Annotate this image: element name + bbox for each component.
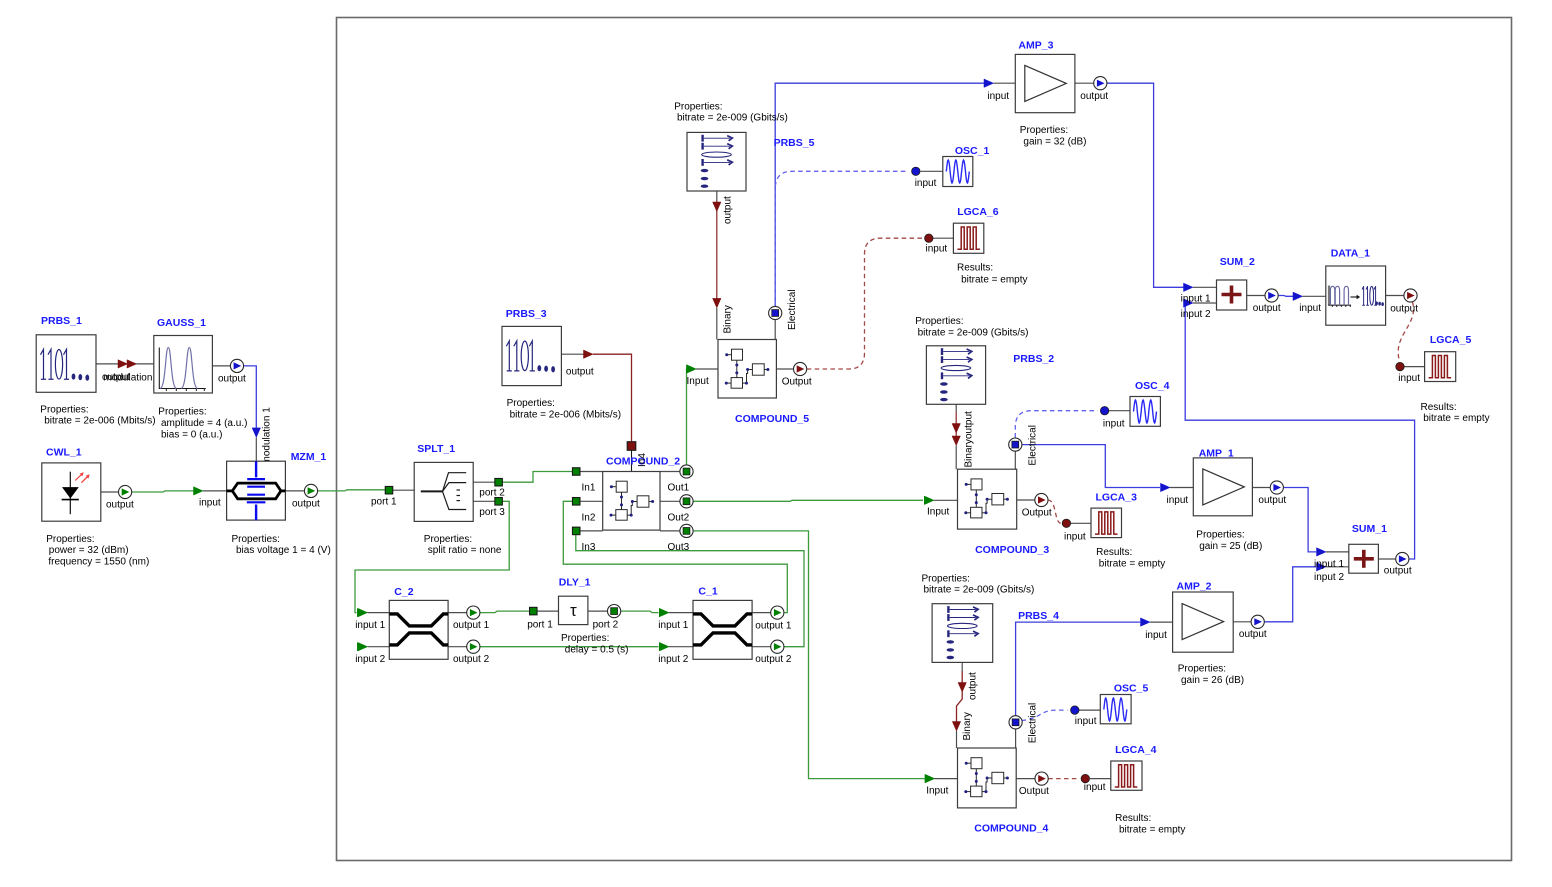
svg-text:input: input [1103,419,1125,430]
wire DLY_1 port 2 to C_1 input 1 [588,610,608,612]
wire GAUSS_1 output to MZM_1 modulation 1 [212,365,230,367]
svg-text:gain = 26 (dB): gain = 26 (dB) [1181,675,1244,686]
svg-text:Results:: Results: [957,263,993,274]
component LGCA_6 (logic analyzer) [925,206,1028,285]
wire AMP_3 output to SUM_2 input 1 [1075,82,1094,84]
component LGCA_4 (logic analyzer) [1081,744,1185,835]
svg-text:In4: In4 [637,453,648,467]
wire dashed COMPOUND_4 Output to LGCA_4 input [1048,778,1079,780]
svg-text:output: output [1080,91,1108,102]
wire dashed COMPOUND_3 Output to LGCA_3 input [1048,500,1061,523]
component GAUSS_1 (gaussian pulse shaper) [154,317,272,464]
svg-text:C_2: C_2 [394,586,413,598]
svg-text:bitrate = 2e-009 (Gbits/s): bitrate = 2e-009 (Gbits/s) [677,113,788,124]
svg-text:input 2: input 2 [355,654,385,665]
svg-text:Input: Input [927,507,949,518]
wire SPLT_1 port 2 to COMPOUND_2 In1 [473,481,495,483]
wire C_2 output 2 to C_1 input 2 [448,646,467,648]
svg-text:output 2: output 2 [453,654,490,665]
svg-text:input: input [1064,531,1086,542]
wire C_1 output 1 to COMPOUND_2 In2 [563,501,787,612]
wire C_1 output 2 to COMPOUND_2 In3 [576,535,804,647]
svg-text:Results:: Results: [1115,813,1151,824]
svg-text:bitrate = empty: bitrate = empty [1099,558,1165,569]
wire COMPOUND_3 Electrical stub [1014,451,1016,469]
component SUM_1 (adder) [1314,523,1412,583]
svg-text:Input: Input [926,786,948,797]
svg-text:In1: In1 [582,483,596,494]
wire SUM_1 output to SUM_2 input 2 [1378,558,1395,560]
wire stub C_2 input 2 (unconnected) [358,643,368,651]
svg-text:output: output [218,374,246,385]
svg-text:output: output [292,499,320,510]
svg-text:output: output [1239,629,1267,640]
svg-text:Electrical: Electrical [1027,425,1038,466]
wire dashed OSC_5 tap [1022,710,1068,720]
svg-text:SUM_2: SUM_2 [1220,256,1255,268]
svg-text:port 1: port 1 [527,619,553,630]
svg-text:LGCA_5: LGCA_5 [1430,334,1472,346]
wire COMPOUND_5 Electrical to AMP_3 input [775,83,986,306]
wire OSC_4 input stub [1109,410,1130,412]
svg-text:Properties:: Properties: [507,398,555,409]
component DATA_1 (data recovery) [1299,248,1418,326]
svg-text:OSC_5: OSC_5 [1114,683,1149,695]
svg-text:LGCA_4: LGCA_4 [1115,744,1157,756]
svg-text:SPLT_1: SPLT_1 [417,443,455,455]
svg-text:split ratio = none: split ratio = none [428,545,502,556]
svg-text:Properties:: Properties: [674,101,722,112]
svg-text:output 2: output 2 [755,654,792,665]
component OSC_1 (oscilloscope) [912,145,990,189]
svg-text:Output: Output [1022,508,1052,519]
svg-text:modulation 1: modulation 1 [261,407,272,465]
wire COMPOUND_2 port stubs [580,471,603,473]
svg-text:bitrate = empty: bitrate = empty [1423,413,1489,424]
svg-text:Output: Output [782,377,812,388]
component DLY_1 (delay) [527,577,628,656]
svg-text:Electrical: Electrical [1028,703,1039,744]
svg-text:input: input [199,498,221,509]
svg-text:output: output [1384,566,1412,577]
wire dashed OSC_4 tap [1015,411,1097,438]
svg-text:Results:: Results: [1421,402,1457,413]
wire LGCA_3 input stub [1071,522,1091,524]
svg-text:port 3: port 3 [479,507,505,518]
svg-text:AMP_2: AMP_2 [1177,581,1212,593]
svg-text:PRBS_3: PRBS_3 [506,308,547,320]
svg-text:GAUSS_1: GAUSS_1 [157,317,206,329]
svg-text:LGCA_3: LGCA_3 [1096,492,1138,504]
wire dashed COMPOUND_5 Output to LGCA_6 input [807,238,923,369]
component LGCA_5 (logic analyzer) [1396,334,1490,424]
wire OSC_5 input stub [1079,709,1100,711]
svg-text:bitrate = empty: bitrate = empty [1119,824,1185,835]
component SUM_2 (adder) [1181,256,1281,320]
wire LGCA_6 input stub [933,237,953,239]
component CWL_1 (CW laser) [42,446,149,567]
svg-text:output: output [1258,495,1286,506]
svg-text:Input: Input [687,376,709,387]
svg-text:output: output [968,672,979,700]
svg-text:Binary: Binary [723,305,734,333]
svg-text:PRBS_4: PRBS_4 [1018,610,1059,622]
wire PRBS_3 output to COMPOUND_2 In4 [561,353,583,355]
svg-text:CWL_1: CWL_1 [46,446,82,458]
svg-text:input: input [1299,303,1321,314]
svg-text:input 1: input 1 [1314,559,1344,570]
svg-text:bias = 0 (a.u.): bias = 0 (a.u.) [161,429,222,440]
svg-text:port 2: port 2 [593,619,619,630]
wire COMPOUND_4 Electrical to AMP_2 input [1016,622,1140,716]
svg-text:Out1: Out1 [668,483,690,494]
wire MZM_1 output to SPLT_1 port 1 [285,490,304,492]
svg-text:bitrate = 2e-009 (Gbits/s): bitrate = 2e-009 (Gbits/s) [918,328,1029,339]
svg-text:DLY_1: DLY_1 [559,577,591,589]
svg-text:In2: In2 [582,512,596,523]
svg-text:MZM_1: MZM_1 [291,451,327,463]
wire OSC_1 input stub [921,170,943,172]
svg-text:output: output [723,196,734,224]
svg-text:Binary: Binary [962,712,973,740]
svg-text:output: output [964,411,975,439]
wire COMPOUND_2 Out2 to COMPOUND_3 Input [693,500,923,501]
svg-text:output: output [566,367,594,378]
wire AMP_2 output to SUM_1 input 2 [1233,621,1251,623]
component LGCA_3 (logic analyzer) [1062,492,1165,570]
svg-text:Properties:: Properties: [561,633,609,644]
svg-text:port 2: port 2 [479,488,505,499]
svg-text:bias voltage 1 = 4 (V): bias voltage 1 = 4 (V) [236,545,331,556]
wire PRBS_5 output to COMPOUND_5 Binary [716,191,718,201]
wire C_2 output 1 to DLY_1 port 1 [448,612,467,614]
svg-text:modulation: modulation [104,373,153,384]
svg-text:input 1: input 1 [355,620,385,631]
svg-text:Output: Output [1019,786,1049,797]
component AMP_3 (amplifier) [987,40,1108,148]
frame border [337,18,1512,861]
svg-text:Out2: Out2 [668,512,690,523]
wire DATA_1 output stub [1386,295,1404,297]
wire dashed OSC_1 tap [775,171,908,305]
wire COMPOUND_4 Electrical stub [1015,729,1017,748]
svg-text:output: output [1253,303,1281,314]
wire SPLT_1 port 3 to C_2 input 1 [473,500,495,502]
component AMP_1 (amplifier) [1167,448,1287,552]
component SPLT_1 (splitter) [371,443,505,556]
component PRBS_3 (PRBS generator) [502,308,621,420]
wire COMPOUND_5 Output stub [776,368,793,370]
svg-text:C_1: C_1 [698,585,717,597]
svg-text:COMPOUND_3: COMPOUND_3 [975,544,1049,556]
svg-text:COMPOUND_5: COMPOUND_5 [735,413,809,425]
svg-text:input 2: input 2 [658,654,688,665]
svg-text:bitrate = empty: bitrate = empty [961,274,1027,285]
component MZM_1 (Mach-Zehnder modulator) [199,451,331,556]
component PRBS_1 (PRBS generator) [36,315,155,427]
svg-text:output: output [1390,304,1418,315]
component AMP_2 (amplifier) [1145,581,1267,686]
wire PRBS_1 output to GAUSS_1 modulation [96,363,119,365]
wire C_1 output stubs [752,612,771,614]
svg-text:input: input [926,244,948,255]
svg-text:input 1: input 1 [1181,294,1211,305]
svg-text:bitrate = 2e-006 (Mbits/s): bitrate = 2e-006 (Mbits/s) [510,409,621,420]
svg-text:DATA_1: DATA_1 [1331,248,1370,260]
svg-text:OSC_4: OSC_4 [1135,380,1170,392]
component OSC_5 (oscilloscope) [1071,683,1149,727]
svg-text:gain = 25 (dB): gain = 25 (dB) [1199,541,1262,552]
svg-text:delay = 0.5 (s): delay = 0.5 (s) [565,644,629,655]
component COMPOUND_5 (compound block) [687,196,812,425]
svg-text:input: input [1084,782,1106,793]
component COMPOUND_4 (compound block) [925,703,1049,835]
component COMPOUND_2 (compound block) [572,442,693,553]
wire COMPOUND_3 Electrical to AMP_1 input [1022,445,1160,488]
svg-text:input: input [987,91,1009,102]
svg-text:Properties:: Properties: [1020,125,1068,136]
svg-text:amplitude = 4 (a.u.): amplitude = 4 (a.u.) [161,418,247,429]
svg-text:output: output [106,500,134,511]
svg-text:input 1: input 1 [658,620,688,631]
svg-text:In3: In3 [582,542,596,553]
svg-text:Results:: Results: [1096,547,1132,558]
wire COMPOUND_5 Electrical stub [774,320,776,340]
svg-text:input: input [915,178,937,189]
wire COMPOUND_4 Output stub [1016,778,1035,780]
svg-text:Properties:: Properties: [1196,530,1244,541]
svg-text:PRBS_5: PRBS_5 [774,137,815,149]
svg-text:input: input [1075,716,1097,727]
svg-text:Properties:: Properties: [46,534,94,545]
wire COMPOUND_3 Output stub [1017,499,1035,501]
svg-text:Properties:: Properties: [1178,664,1226,675]
svg-text:Electrical: Electrical [787,289,798,330]
svg-text:Binary: Binary [964,439,975,467]
svg-text:AMP_3: AMP_3 [1018,40,1053,52]
component PRBS_4 (PRBS source) [922,573,1060,700]
svg-text:power = 32 (dBm): power = 32 (dBm) [49,545,129,556]
svg-text:Properties:: Properties: [232,534,280,545]
svg-text:input 2: input 2 [1181,309,1211,320]
wire PRBS_2 output to COMPOUND_3 Binary [955,404,957,412]
svg-text:output 1: output 1 [453,620,490,631]
svg-text:frequency = 1550 (nm): frequency = 1550 (nm) [48,556,149,567]
svg-text:bitrate = 2e-009 (Gbits/s): bitrate = 2e-009 (Gbits/s) [924,585,1035,596]
svg-text:input: input [1398,373,1420,384]
component PRBS_5 (PRBS source) [674,101,814,191]
component OSC_4 (oscilloscope) [1100,380,1169,430]
svg-text:AMP_1: AMP_1 [1199,448,1234,460]
svg-text:Properties:: Properties: [922,573,970,584]
svg-text:LGCA_6: LGCA_6 [957,206,999,218]
svg-text:Out3: Out3 [668,542,690,553]
component C_2 (coupler) [355,586,489,665]
svg-text:COMPOUND_4: COMPOUND_4 [974,822,1048,834]
component PRBS_2 (PRBS source) [915,316,1054,439]
svg-text:PRBS_2: PRBS_2 [1013,353,1054,365]
wire SPLT_1 port stubs [385,489,393,491]
wire SUM_2 output to DATA_1 input [1247,295,1265,297]
svg-text:bitrate = 2e-006 (Mbits/s): bitrate = 2e-006 (Mbits/s) [44,416,155,427]
svg-text:input: input [1167,495,1189,506]
wire PRBS_4 output to COMPOUND_4 Binary [961,662,963,671]
svg-text:Properties:: Properties: [40,404,88,415]
component COMPOUND_3 (compound block) [924,425,1052,556]
svg-text:input: input [1145,630,1167,641]
svg-text:input 2: input 2 [1314,572,1344,583]
wire COMPOUND_2 Out3 to COMPOUND_4 Input [693,531,924,779]
svg-text:SUM_1: SUM_1 [1352,523,1387,535]
wire CWL_1 output to MZM_1 input [101,491,118,493]
wire AMP_1 output to SUM_1 input 1 [1252,487,1270,489]
svg-text:output 1: output 1 [755,621,792,632]
wire COMPOUND_2 Out1 to COMPOUND_5 Input [686,369,689,465]
svg-text:Properties:: Properties: [158,407,206,418]
svg-text:gain = 32 (dB): gain = 32 (dB) [1023,136,1086,147]
svg-text:τ: τ [570,601,577,620]
svg-text:Properties:: Properties: [915,316,963,327]
svg-text:Properties:: Properties: [424,534,472,545]
component C_1 (coupler) [658,585,792,665]
svg-text:PRBS_1: PRBS_1 [41,315,82,327]
svg-text:port 1: port 1 [371,497,397,508]
wire dashed DATA_1 output to LGCA_5 input [1398,302,1413,361]
svg-text:OSC_1: OSC_1 [955,145,990,157]
